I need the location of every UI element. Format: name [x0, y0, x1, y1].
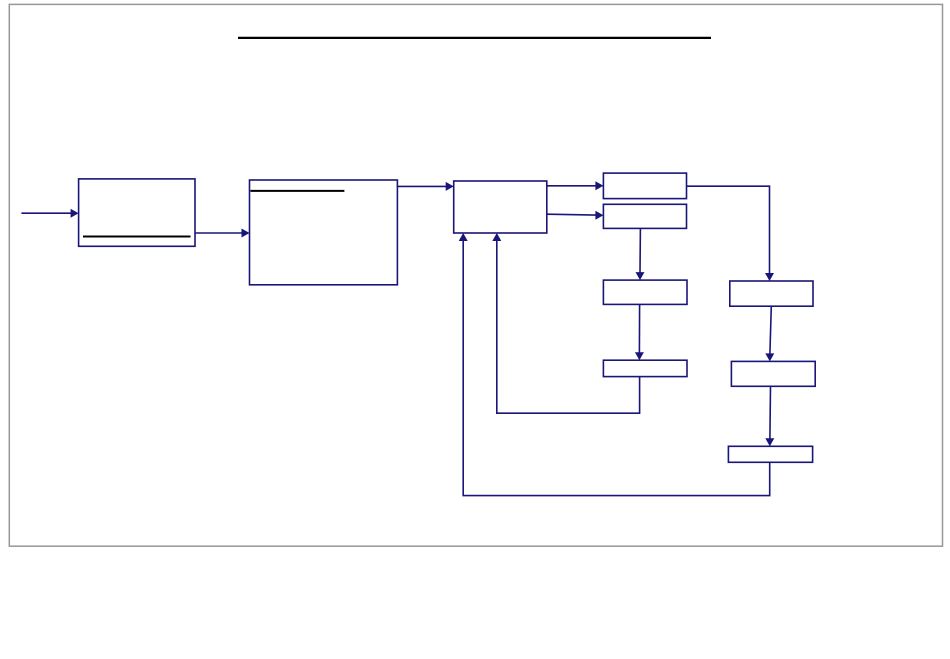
box B2 — [250, 180, 398, 285]
arrow B9 down to B10 — [765, 386, 774, 446]
box B4 — [603, 173, 686, 199]
box B7 — [603, 360, 687, 376]
box B5 — [603, 204, 686, 228]
arrow B1 to B2 — [195, 229, 250, 238]
box B1 — [79, 179, 195, 246]
wire B7 down left and up into B3 with arrow — [492, 233, 639, 413]
wire B10 down left and up into B3 with arrow — [459, 233, 770, 496]
arrow B8 down to B9 — [765, 306, 774, 361]
arrow input to B1 — [21, 209, 78, 218]
arrow B3 to B5 — [547, 211, 604, 220]
underline in box B1 — [83, 236, 191, 238]
arrow B2 to B3 — [397, 182, 453, 191]
arrow B6 down to B7 — [635, 304, 644, 360]
arrow B5 down to B6 — [636, 228, 645, 280]
box B9 — [731, 361, 815, 386]
underline in box B2 — [251, 190, 345, 192]
box B10 — [728, 446, 812, 462]
title underline — [238, 37, 711, 39]
wire B4 right then down to B8 with arrow — [687, 186, 775, 281]
box B6 — [603, 280, 687, 304]
box B3 — [454, 181, 547, 233]
box B8 — [730, 281, 813, 306]
arrow B3 to B4 — [547, 181, 604, 190]
